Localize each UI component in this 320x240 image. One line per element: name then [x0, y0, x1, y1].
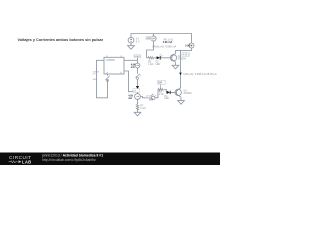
svg-text:http://circuitlab.com/c/9p5k3x: http://circuitlab.com/c/9p5k3x6ab9w	[42, 158, 96, 162]
svg-text:LAB: LAB	[22, 159, 32, 164]
svg-text:1 kΩ: 1 kΩ	[159, 94, 164, 96]
svg-text:1 kΩ: 1 kΩ	[148, 63, 153, 66]
svg-text:4.96 V: 4.96 V	[183, 55, 190, 57]
svg-text:4.9m: 4.9m	[147, 38, 152, 40]
svg-text:4.96 mA: 4.96 mA	[163, 41, 173, 44]
svg-text:I(R9.nA): 4.958 mA 28.35 uA: I(R9.nA): 4.958 mA 28.35 uA	[184, 72, 217, 76]
svg-text:0 V: 0 V	[158, 83, 162, 85]
svg-text:LM555N: LM555N	[106, 59, 115, 62]
svg-text:2N3904: 2N3904	[178, 59, 187, 61]
svg-text:LED: LED	[165, 98, 170, 100]
svg-text:0 V: 0 V	[93, 74, 97, 76]
svg-text:SW1: SW1	[93, 79, 99, 81]
svg-text:mA: mA	[128, 97, 132, 100]
svg-text:2N3904: 2N3904	[184, 93, 193, 95]
svg-text:0 V: 0 V	[149, 100, 153, 102]
svg-text:I(AM1.nA): 4.958 mA: I(AM1.nA): 4.958 mA	[152, 44, 176, 48]
svg-text:1 kΩ: 1 kΩ	[140, 107, 145, 110]
svg-text:Voltajes y Corrientes ambos bo: Voltajes y Corrientes ambos botones sin …	[18, 38, 104, 42]
svg-text:5 V: 5 V	[136, 40, 140, 43]
svg-text:5.00 V: 5.00 V	[185, 45, 192, 48]
svg-text:mA: mA	[131, 66, 135, 69]
svg-text:LED: LED	[156, 63, 161, 66]
svg-text:5.00 V: 5.00 V	[134, 56, 141, 58]
